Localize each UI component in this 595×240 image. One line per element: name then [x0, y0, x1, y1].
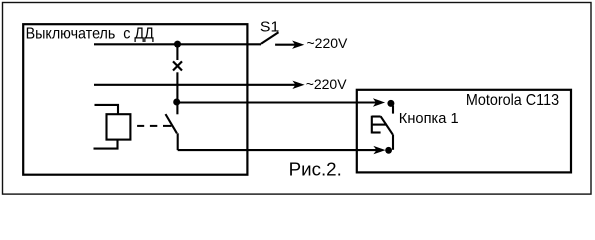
wire: middle line N: [94, 84, 296, 86]
relay coil K1 (motion detector output): [107, 114, 131, 139]
svg-text:Motorola C113: Motorola C113: [466, 92, 559, 109]
contact K1.1 blade: [166, 114, 177, 133]
wire: bottom line to button: [178, 149, 377, 151]
wire: coil bottom lead: [94, 140, 118, 149]
switch S1 blade: [261, 32, 279, 43]
wire: vertical from X break down to lower junction: [176, 72, 178, 102]
push button terminal node (bottom): [385, 147, 392, 154]
contact K1.1 top stub: [176, 102, 178, 114]
svg-text:Выключатель с ДД: Выключатель с ДД: [26, 25, 154, 42]
mechanical link (dashed): [137, 125, 144, 127]
svg-text:Кнопка 1: Кнопка 1: [399, 110, 459, 127]
svg-text:Рис.2.: Рис.2.: [289, 159, 342, 180]
push button pusher rod: [372, 124, 387, 126]
box: switch with motion detector (Выключатель с ДД): [23, 24, 247, 175]
X mark (wire break): [173, 61, 182, 70]
wire: vertical from junction down to X break: [176, 44, 178, 60]
svg-text:S1: S1: [260, 18, 279, 35]
wire: to button top terminal: [177, 101, 377, 103]
box: Motorola C113: [357, 90, 571, 173]
node: junction dot to Motorola wire: [173, 99, 180, 106]
wire: top line L (to S1): [94, 43, 261, 45]
node: junction dot on top wire: [174, 41, 181, 48]
svg-text:~220V: ~220V: [307, 35, 349, 51]
wire: coil top lead: [95, 105, 119, 114]
arrow: into button bottom terminal: [373, 146, 385, 154]
arrow: into button top terminal: [373, 98, 385, 106]
wire: contact bottom vertical: [177, 133, 179, 150]
push button bottom stub: [392, 134, 394, 149]
push button cap top prong: [372, 115, 381, 117]
svg-text:~220V: ~220V: [306, 76, 348, 92]
push button cap vertical: [371, 116, 373, 134]
push button blade: [381, 116, 393, 134]
arrow: middle line to ~220V: [292, 81, 304, 89]
push button cap bottom prong: [372, 131, 381, 133]
push button top stub: [392, 106, 394, 114]
push button terminal node (top): [387, 100, 394, 107]
arrow: S1 to ~220V: [275, 44, 296, 46]
